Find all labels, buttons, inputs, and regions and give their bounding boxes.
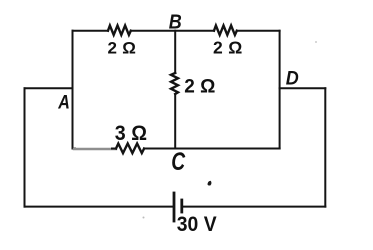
svg-text:3 Ω: 3 Ω xyxy=(115,122,147,145)
svg-text:D: D xyxy=(286,67,299,89)
svg-text:30 V: 30 V xyxy=(177,213,217,236)
svg-text:B: B xyxy=(169,12,182,34)
svg-text:2 Ω: 2 Ω xyxy=(184,77,215,98)
svg-text:2 Ω: 2 Ω xyxy=(213,38,243,58)
svg-text:2 Ω: 2 Ω xyxy=(108,39,137,58)
svg-text:A: A xyxy=(57,93,69,114)
svg-text:C: C xyxy=(171,148,186,176)
